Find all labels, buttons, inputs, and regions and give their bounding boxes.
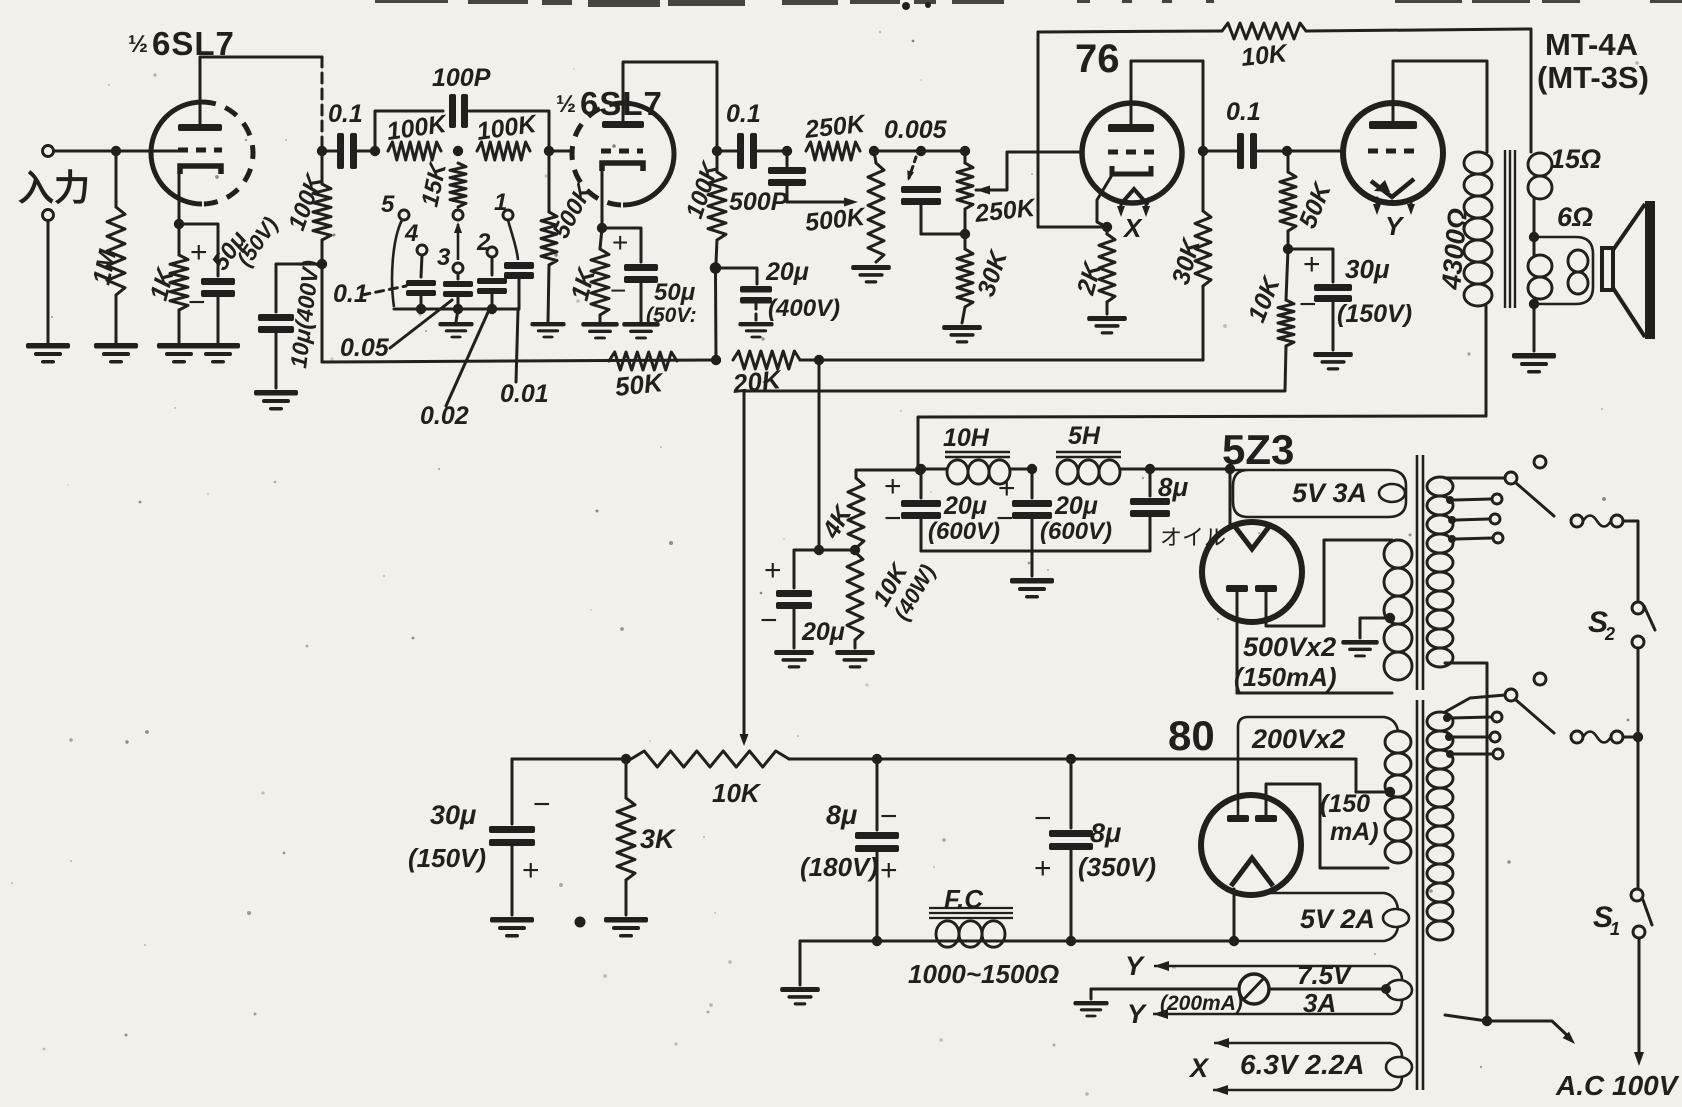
cropped print fragments top edge xyxy=(375,0,1682,10)
capacitor 10u 400V decoupling xyxy=(258,314,294,333)
76 plate lead inside xyxy=(1130,103,1133,124)
wire 80 plate b to HV2 bottom xyxy=(1266,784,1388,868)
tap1 terminal c xyxy=(1493,533,1503,543)
wire primary1 top to selector xyxy=(1445,477,1505,480)
return line B- xyxy=(800,940,1234,943)
svg-text:8μ: 8μ xyxy=(1158,472,1188,502)
wire fuse1 to S2 xyxy=(1623,521,1638,601)
tap1 wire c xyxy=(1456,538,1492,539)
wire 5Z3 filament feed xyxy=(1229,469,1232,527)
wire S2 down xyxy=(1637,648,1640,731)
wire 3K bottom xyxy=(625,880,628,915)
capacitor 0.005 xyxy=(901,186,941,205)
capacitor 0.1 tone xyxy=(406,280,436,296)
wire 10K bias top xyxy=(1286,249,1288,300)
winding loop 5V2A xyxy=(1383,909,1409,927)
tap1 wire b xyxy=(1456,519,1489,520)
volume pot wiper arrowhead xyxy=(976,186,990,195)
V1 plate lead inside xyxy=(199,102,202,124)
svg-text:+: + xyxy=(612,227,628,258)
node 8u180 top xyxy=(872,754,882,764)
svg-text:50K: 50K xyxy=(1294,177,1338,232)
node 6ohm tap bottom xyxy=(1529,299,1539,309)
wire 50u b bottom xyxy=(640,283,643,322)
capacitor 8u 180V xyxy=(855,832,899,852)
node 5Z3 filament xyxy=(1225,464,1235,474)
resistor 100K plate load V1 xyxy=(313,184,331,240)
svg-text:(150mA): (150mA) xyxy=(1234,662,1337,692)
wire X1 line xyxy=(1214,1043,1402,1057)
selector wiper arrowhead xyxy=(454,222,462,233)
node 500P xyxy=(782,146,792,156)
ground 500K pot xyxy=(851,265,891,283)
capacitor 500P xyxy=(768,167,806,186)
wire V2 cathode lead xyxy=(601,171,604,228)
svg-text:0.01: 0.01 xyxy=(500,380,549,408)
OPT primary winding 4300ohm xyxy=(1464,152,1492,306)
wire node to bus 2 xyxy=(714,273,718,360)
svg-text:入力: 入力 xyxy=(18,167,90,208)
wire 0.005 to pot bottom xyxy=(921,233,965,236)
selector lever 1 xyxy=(1516,483,1554,516)
svg-text:(600V): (600V) xyxy=(1040,518,1112,545)
switch S2 bottom contact xyxy=(1632,636,1644,648)
wire fuse2 out xyxy=(1623,736,1638,739)
wire Y2 line xyxy=(1153,1000,1402,1014)
ground 1K b xyxy=(581,322,618,339)
svg-text:20μ: 20μ xyxy=(1054,492,1098,520)
wire 76 plate to node xyxy=(1131,61,1203,148)
tap1 terminal b xyxy=(1490,514,1500,524)
wire output plate to OPT xyxy=(1393,61,1487,152)
V1 plate bar xyxy=(178,124,222,131)
wire primary1 bottom to AC xyxy=(1445,663,1487,1021)
wire wiper to 76 grid xyxy=(976,152,1082,190)
node bus feed xyxy=(814,355,824,365)
node 7.5V CT xyxy=(1381,984,1391,994)
80 plate b xyxy=(1255,815,1277,822)
wire bias return to hum pot xyxy=(744,346,1286,391)
wire meter line ground stub xyxy=(1090,989,1093,999)
wire 0.1 to node xyxy=(358,150,375,153)
svg-text:X: X xyxy=(1122,213,1143,243)
tap2 dot a xyxy=(1443,714,1451,722)
selector pivot 2 xyxy=(1505,689,1517,701)
svg-text:(180V): (180V) xyxy=(800,852,878,882)
tap1 dot c xyxy=(1448,535,1456,543)
svg-text:1K: 1K xyxy=(145,264,181,304)
input terminal top xyxy=(43,146,54,157)
selector pivot 1 xyxy=(1505,472,1517,484)
svg-text:+: + xyxy=(190,236,208,269)
selector lever 2 xyxy=(1516,700,1554,733)
ground 50u xyxy=(196,343,240,364)
primary1 winding loops xyxy=(1427,477,1453,667)
svg-text:10H: 10H xyxy=(943,424,990,452)
tap1 terminal a xyxy=(1492,494,1502,504)
wire 500P to pot wiper xyxy=(787,201,846,204)
resistor 50K grid xyxy=(1280,172,1296,231)
node bus a xyxy=(416,304,426,314)
output grid (dashed) xyxy=(1368,149,1418,154)
node 15K tap xyxy=(453,146,463,156)
tap2 terminal b xyxy=(1490,732,1500,742)
arrow Y1 xyxy=(1154,961,1169,971)
node fuse2 out xyxy=(1633,732,1643,742)
capacitor 0.05 tone xyxy=(443,281,473,297)
wire 1K top xyxy=(178,224,181,255)
wire 100K b bottom xyxy=(716,240,717,263)
node HV2 center tap xyxy=(1385,787,1395,797)
wire 0.005 bottom xyxy=(920,205,923,234)
svg-text:76: 76 xyxy=(1075,37,1120,81)
wire bleeder bottom xyxy=(854,640,857,648)
wire 8u oil stem xyxy=(1149,469,1152,496)
ground 500K xyxy=(530,322,565,338)
svg-text:5Z3: 5Z3 xyxy=(1222,426,1294,473)
capacitor 0.1 coupling V2 xyxy=(737,133,757,169)
svg-text:0.005: 0.005 xyxy=(884,116,948,144)
selector position 2 contact xyxy=(487,247,497,257)
svg-text:80: 80 xyxy=(1168,712,1215,759)
svg-text:3K: 3K xyxy=(640,824,677,854)
svg-text:(150V): (150V) xyxy=(408,843,486,873)
svg-text:−: − xyxy=(760,604,778,637)
node 3K xyxy=(621,754,631,764)
svg-text:10K: 10K xyxy=(712,778,762,808)
wire 8u350 stem xyxy=(1070,759,1073,828)
svg-text:(400V): (400V) xyxy=(768,295,840,322)
ground filter xyxy=(1010,578,1054,599)
choke 5H loops xyxy=(1057,460,1120,484)
wire to 0.1 xyxy=(322,150,337,153)
wire 30K b to bus xyxy=(1202,286,1205,360)
svg-text:100K: 100K xyxy=(385,110,450,146)
ground 30u150 xyxy=(490,917,534,938)
wire bus to ground xyxy=(456,309,458,322)
choke FC loops xyxy=(936,921,1005,947)
tap2 dot c xyxy=(1446,750,1454,758)
wire filter b xyxy=(1010,468,1032,471)
B+ bus left segment xyxy=(322,360,716,362)
node V1 plate/0.1 xyxy=(317,146,327,156)
svg-text:100P: 100P xyxy=(432,64,491,92)
wire 500P bottom xyxy=(786,186,789,202)
80 plate a xyxy=(1227,815,1249,822)
svg-text:100K: 100K xyxy=(475,110,540,146)
resistor 1K cathode V1 xyxy=(170,255,188,310)
wire 100P branch right xyxy=(469,111,549,151)
76 filament arrow b xyxy=(1142,206,1150,217)
wire 80 filament a down xyxy=(1233,889,1236,941)
svg-text:X: X xyxy=(1188,1053,1210,1083)
leader 0.05 xyxy=(390,300,452,348)
svg-text:F.C: F.C xyxy=(944,884,984,914)
svg-text:1M: 1M xyxy=(87,246,122,287)
wire vol pot bottom xyxy=(964,209,967,234)
svg-text:200Vx2: 200Vx2 xyxy=(1251,724,1345,754)
node bus b xyxy=(453,304,463,314)
wire to 10u cap xyxy=(276,264,322,312)
ground 3K xyxy=(604,917,648,938)
svg-text:500K: 500K xyxy=(804,203,868,237)
wire grid entry V2 xyxy=(554,150,572,153)
svg-text:(50V:: (50V: xyxy=(646,304,697,327)
wire S1 to AC xyxy=(1638,938,1641,1056)
arrow Y2 xyxy=(1153,1009,1168,1019)
node feedback loop left xyxy=(370,146,380,156)
output plate bar xyxy=(1369,121,1417,129)
ground input xyxy=(26,343,70,364)
winding loop 5V3A xyxy=(1379,484,1405,502)
wire 4K node xyxy=(819,549,855,552)
output filament arrow b xyxy=(1407,204,1415,215)
wire V1 plate drop (sketchy dashed) xyxy=(321,57,324,148)
resistor 10K bias xyxy=(1278,300,1294,346)
B+80 line right xyxy=(789,758,1356,761)
V2 plate bar xyxy=(602,121,644,128)
svg-text:3: 3 xyxy=(437,244,451,271)
ground heater CT xyxy=(1073,1001,1108,1017)
wire 3K top xyxy=(625,759,628,798)
arrow X2 xyxy=(1213,1085,1228,1095)
ground 50u b xyxy=(622,322,659,339)
selector off contact 1 xyxy=(1534,456,1546,468)
svg-text:50μ: 50μ xyxy=(654,279,696,306)
input terminal bottom xyxy=(43,210,54,221)
tap2 wire b xyxy=(1453,736,1489,739)
node 4K tap xyxy=(915,465,925,475)
wire secondary to ground xyxy=(1533,306,1536,351)
wire B+ feed from filter xyxy=(918,416,1486,469)
node V1 cathode xyxy=(174,219,184,229)
capacitor 30u 150V xyxy=(1314,284,1352,302)
svg-text:−: − xyxy=(880,800,898,833)
wire 500K top xyxy=(548,151,551,212)
capacitor 20u bias xyxy=(776,590,812,609)
wire 20u600 b stem xyxy=(1031,469,1034,498)
wire filter c xyxy=(1121,468,1230,471)
svg-text:5V 2A: 5V 2A xyxy=(1300,904,1375,934)
node bleed xyxy=(814,545,824,555)
ground 20u xyxy=(738,322,773,338)
output filament leg a xyxy=(1376,198,1379,207)
fuse2 terminal a xyxy=(1571,731,1583,743)
wire 50u bottom xyxy=(217,297,220,343)
svg-text:10K: 10K xyxy=(1240,39,1290,72)
tap2 dot b xyxy=(1445,733,1453,741)
V2 grid (dashed) xyxy=(601,149,643,154)
svg-text:4: 4 xyxy=(404,220,418,247)
transformer1 core xyxy=(1417,455,1423,690)
winding box 5V3A xyxy=(1230,470,1406,517)
fuse2 squiggle xyxy=(1583,732,1611,743)
node filter in xyxy=(916,464,926,474)
svg-text:500P: 500P xyxy=(729,188,788,216)
wire 8u oil bottom xyxy=(1149,517,1152,551)
B+80 line left xyxy=(512,758,631,761)
wire 50K top xyxy=(1287,151,1290,172)
node output grid xyxy=(1282,146,1292,156)
svg-text:20K: 20K xyxy=(730,364,784,399)
wire V1 cathode lead xyxy=(178,174,181,224)
svg-text:+: + xyxy=(1034,852,1052,885)
resistor 10K 40W bleeder xyxy=(847,552,863,640)
winding box 200Vx2 top xyxy=(1238,717,1398,816)
wire V1 plate to coupling node xyxy=(200,57,322,102)
wire feedback to OPT secondary xyxy=(1306,29,1531,152)
svg-text:0.05: 0.05 xyxy=(340,334,390,362)
svg-text:½: ½ xyxy=(128,31,148,58)
wire to 20u 400V xyxy=(716,268,758,284)
pot wiper arrowhead 500K xyxy=(844,198,858,207)
node decoupling xyxy=(317,259,327,269)
wire grid 76 xyxy=(1012,151,1082,154)
svg-text:0.1: 0.1 xyxy=(328,100,363,128)
capacitor 8u 350V xyxy=(1049,830,1093,850)
V1 cathode xyxy=(180,166,221,174)
output cathode scribble xyxy=(1374,180,1390,192)
svg-text:mA): mA) xyxy=(1330,818,1379,846)
76 filament V xyxy=(1120,189,1148,205)
svg-text:1: 1 xyxy=(1610,919,1620,939)
svg-text:30K: 30K xyxy=(972,246,1013,300)
svg-text:8μ: 8μ xyxy=(1090,818,1121,848)
choke 10H core bars xyxy=(945,452,1010,457)
wire 8u180 stem xyxy=(876,759,879,830)
wire AC common lead xyxy=(1487,1021,1570,1038)
capacitor 0.01 tone xyxy=(504,262,534,279)
node 8u350 top xyxy=(1066,754,1076,764)
wire bus drop xyxy=(818,360,821,550)
AC arrow b xyxy=(1563,1032,1575,1044)
HV winding 500Vx2 loops xyxy=(1384,540,1412,680)
wire OPT primary bottom down xyxy=(1485,306,1488,416)
capacitor 20u 600V b xyxy=(1012,500,1052,519)
wire Y1 line xyxy=(1154,966,1402,980)
node 76 plate xyxy=(1198,146,1208,156)
svg-text:−: − xyxy=(1299,288,1317,321)
tap1 dot a xyxy=(1446,496,1454,504)
wire 30K a top xyxy=(964,234,967,249)
wire 0.01 bottom xyxy=(518,274,521,309)
wire input to V1 grid xyxy=(54,150,152,153)
V2 plate lead inside xyxy=(622,103,625,121)
wire 100P branch left xyxy=(375,111,443,151)
svg-text:Y: Y xyxy=(1385,211,1405,241)
node 8u350 bottom xyxy=(1066,936,1076,946)
wire 10u bottom xyxy=(275,333,278,388)
arrow X1 xyxy=(1214,1038,1229,1048)
svg-text:20μ: 20μ xyxy=(943,492,987,520)
wire meter line right xyxy=(1269,988,1385,991)
node 8u180 bottom xyxy=(872,936,882,946)
capacitor 50u 50V cathode bypass V2 xyxy=(624,264,658,283)
node 6ohm tap top xyxy=(1529,232,1539,242)
resistor 30K a xyxy=(957,249,973,307)
capacitor 0.02 tone xyxy=(477,278,507,294)
wire 5Z3 plate a to HV bottom xyxy=(1237,692,1392,695)
tap2 wire c xyxy=(1454,753,1492,756)
wire 30u bottom xyxy=(1332,302,1335,350)
capacitor 8u oil xyxy=(1130,498,1170,517)
76 cathode bar xyxy=(1112,166,1151,174)
winding loop 6.3V xyxy=(1386,1057,1412,1077)
wire V2 plate to coupling node xyxy=(623,62,717,148)
svg-text:1: 1 xyxy=(494,189,507,216)
wire 30u150 bottom xyxy=(511,846,514,915)
transformer2 core xyxy=(1417,700,1423,1090)
wire meter line left xyxy=(1091,988,1239,991)
svg-text:−: − xyxy=(884,502,902,535)
stray ink dot xyxy=(575,917,586,928)
svg-text:(150V): (150V) xyxy=(1337,300,1412,328)
wire pos2 to cap xyxy=(491,257,494,275)
capacitor 100P xyxy=(449,94,468,128)
hum pot wiper arrowhead xyxy=(740,734,749,746)
wire 100K b top xyxy=(716,151,719,172)
wire to 0.1 b xyxy=(717,150,737,153)
wire 30u150 stem xyxy=(511,759,514,824)
tap2 wire a xyxy=(1451,717,1491,718)
wire 20u600 b bottom xyxy=(1031,519,1034,551)
output filament leg b xyxy=(1410,198,1413,207)
wire 500P stem xyxy=(786,156,789,166)
svg-text:100K: 100K xyxy=(681,157,725,221)
svg-text:(600V): (600V) xyxy=(928,518,1000,545)
wire capA bottom xyxy=(420,296,423,309)
svg-text:MT-4A: MT-4A xyxy=(1545,27,1638,62)
meter 200mA xyxy=(1239,974,1269,1004)
76 filament leg b xyxy=(1145,205,1148,211)
svg-text:0.1: 0.1 xyxy=(1226,98,1261,126)
wire secondary low stub xyxy=(1533,299,1536,306)
svg-text:20μ: 20μ xyxy=(765,258,809,286)
svg-text:2: 2 xyxy=(1604,624,1615,644)
output cathode V xyxy=(1371,179,1414,197)
capacitor 20u 400V decoupling 2 xyxy=(740,286,772,304)
B+ bus right segment xyxy=(800,359,1203,362)
selector rotor contact top xyxy=(453,210,463,220)
wire X2 line xyxy=(1213,1076,1402,1090)
wire 1K bottom xyxy=(178,310,181,343)
node 76 cathode xyxy=(1102,222,1112,232)
svg-text:+: + xyxy=(522,854,540,887)
capacitor 0.1 coupling V1 xyxy=(337,133,357,169)
wire grid entry V1 xyxy=(152,150,178,153)
ground 30u xyxy=(1313,352,1353,370)
fuse2 terminal b xyxy=(1611,731,1623,743)
wire position5 to bus xyxy=(392,220,402,307)
76 cathode lead xyxy=(1097,175,1112,227)
capacitor 50u 50V cathode bypass V1 xyxy=(201,278,235,297)
wire HV CT to ground xyxy=(1360,618,1390,638)
wire 20u600 a stem xyxy=(920,469,923,498)
ground 10u xyxy=(254,390,298,411)
wire 0.1c to grid node xyxy=(1258,150,1287,153)
wire input shield to ground xyxy=(47,221,50,343)
winding box 5V2A xyxy=(1234,893,1398,941)
capacitor 30u 150V supply xyxy=(489,826,535,846)
wire filter a xyxy=(918,468,947,471)
potentiometer 10K hum body xyxy=(631,751,789,767)
node bias xyxy=(1283,244,1293,254)
svg-text:+: + xyxy=(880,854,898,887)
node 8u xyxy=(1145,464,1155,474)
wire primary2 top to selector xyxy=(1445,695,1505,712)
svg-text:−: − xyxy=(610,275,626,306)
resistor 100K feedback a xyxy=(388,142,441,160)
